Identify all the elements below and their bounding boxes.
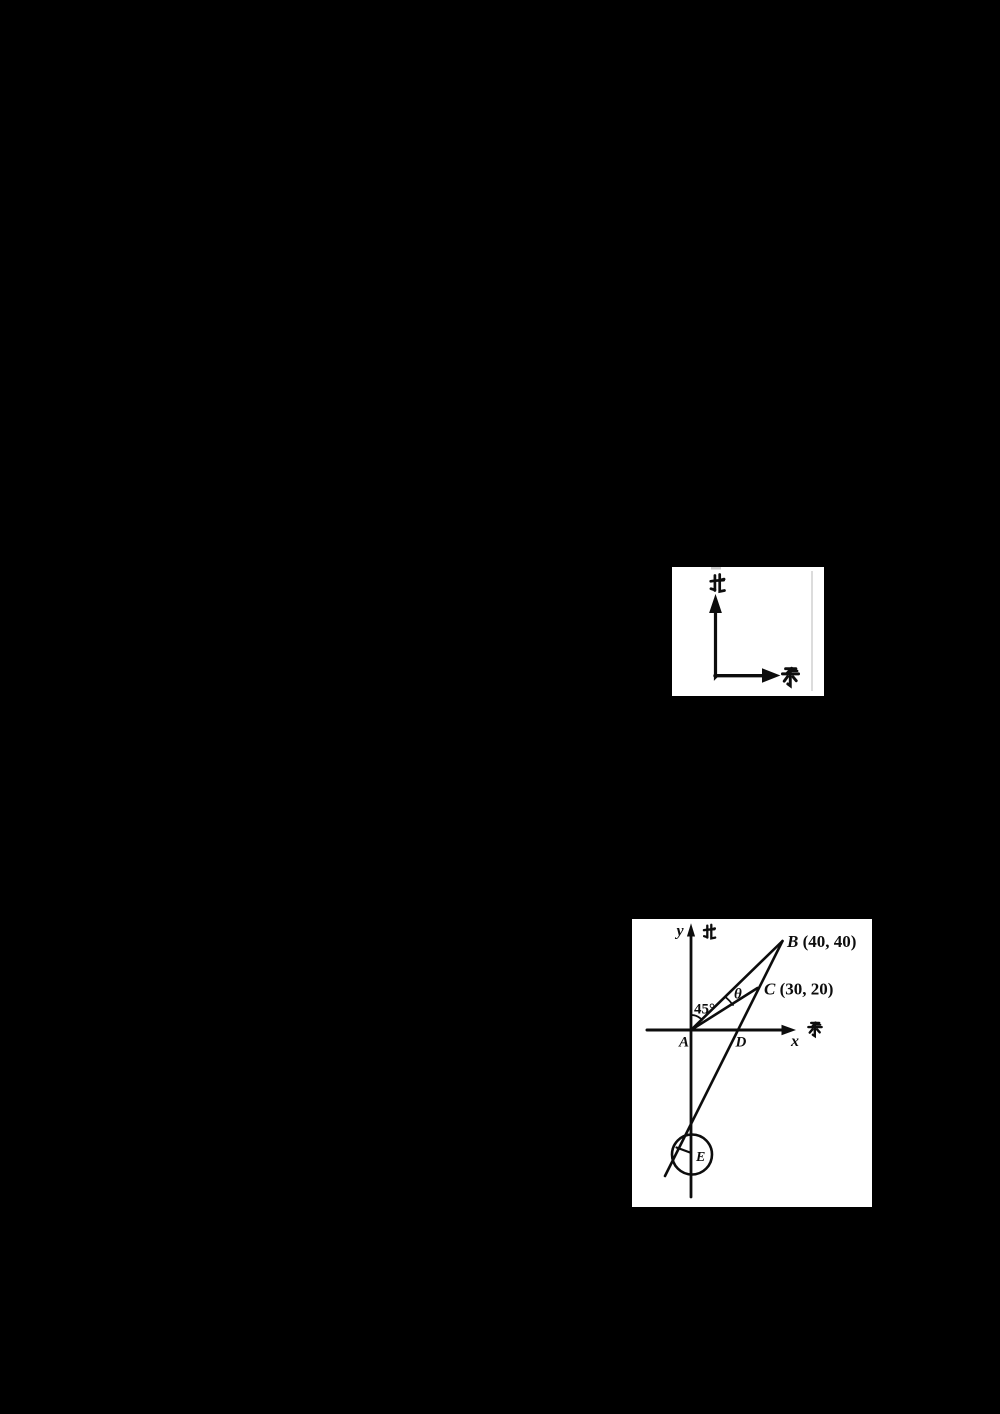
label bei (north) on y axis: [704, 925, 715, 939]
chord segment in circle: [677, 1148, 691, 1153]
svg-text:y: y: [675, 923, 685, 940]
svg-text:E: E: [695, 1150, 705, 1165]
svg-text:θ: θ: [734, 987, 742, 1003]
x axis: [647, 1029, 788, 1032]
label bei (north): [711, 575, 725, 592]
line A to C: [691, 988, 758, 1030]
east arrow shaft: [715, 674, 764, 677]
svg-text:C (30, 20): C (30, 20): [764, 980, 833, 999]
line A to B: [691, 941, 783, 1030]
y axis arrowhead: [688, 925, 695, 936]
east arrowhead: [763, 669, 780, 682]
svg-text:D: D: [735, 1035, 747, 1051]
45 degree arc: [692, 1015, 702, 1020]
svg-text:45°: 45°: [694, 1002, 715, 1018]
svg-text:x: x: [790, 1033, 799, 1050]
label dong (east): [782, 669, 798, 686]
x axis arrowhead: [782, 1026, 795, 1035]
theta arc: [726, 997, 734, 1005]
figure box 2: coordinate geometry figure: [632, 919, 872, 1207]
label dong (east) on x axis: [808, 1023, 821, 1036]
circle at E: [672, 1135, 712, 1175]
north arrow shaft: [714, 608, 718, 677]
y axis: [690, 935, 693, 1197]
svg-text:B (40, 40): B (40, 40): [786, 932, 856, 951]
faint scan smudge: [711, 567, 721, 570]
svg-text:A: A: [678, 1035, 689, 1051]
faint scan line: [811, 571, 813, 691]
north arrowhead: [710, 596, 721, 613]
line B through C, D, to E: [665, 941, 783, 1176]
figure box 1: compass (north/east arrows): [672, 567, 824, 696]
